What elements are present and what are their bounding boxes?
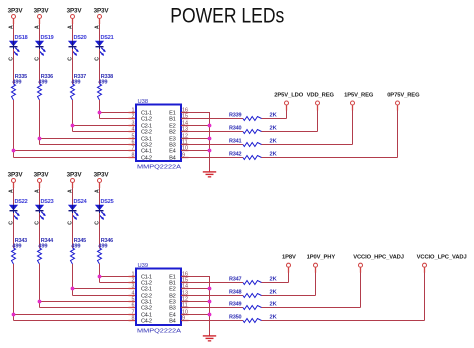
svg-text:3P3V: 3P3V xyxy=(8,172,24,179)
svg-text:2K: 2K xyxy=(270,290,278,296)
svg-text:C4-2: C4-2 xyxy=(141,319,152,325)
svg-text:DS21: DS21 xyxy=(101,35,114,41)
svg-text:DS18: DS18 xyxy=(15,35,28,41)
svg-text:2K: 2K xyxy=(270,126,278,132)
svg-text:C: C xyxy=(67,221,73,225)
svg-text:2K: 2K xyxy=(270,139,278,145)
svg-text:2P5V_LDO: 2P5V_LDO xyxy=(274,92,303,98)
svg-text:VCCIO_LPC_VADJ: VCCIO_LPC_VADJ xyxy=(417,255,467,261)
svg-text:DS25: DS25 xyxy=(101,199,114,205)
svg-text:VDD_REG: VDD_REG xyxy=(307,92,335,98)
svg-text:C2-1: C2-1 xyxy=(141,287,152,293)
svg-text:DS19: DS19 xyxy=(41,35,54,41)
svg-text:3P3V: 3P3V xyxy=(94,8,110,15)
svg-text:C3-2: C3-2 xyxy=(141,306,152,312)
svg-text:E2: E2 xyxy=(169,287,175,293)
svg-text:A: A xyxy=(8,25,14,29)
svg-text:C: C xyxy=(34,221,40,225)
svg-text:3P3V: 3P3V xyxy=(34,8,50,15)
svg-text:3P3V: 3P3V xyxy=(94,172,110,179)
svg-text:C4-1: C4-1 xyxy=(141,149,152,155)
svg-text:R340: R340 xyxy=(229,126,241,132)
svg-text:R348: R348 xyxy=(229,290,241,296)
svg-text:VCCIO_HPC_VADJ: VCCIO_HPC_VADJ xyxy=(353,255,404,261)
svg-text:A: A xyxy=(34,189,40,193)
svg-text:3P3V: 3P3V xyxy=(67,172,83,179)
svg-text:1P0V_PHY: 1P0V_PHY xyxy=(307,255,336,261)
svg-text:R339: R339 xyxy=(229,113,241,119)
svg-text:DS20: DS20 xyxy=(74,35,87,41)
svg-text:C2-2: C2-2 xyxy=(141,130,152,136)
svg-text:0P75V_REG: 0P75V_REG xyxy=(387,92,420,98)
svg-text:C: C xyxy=(8,57,14,61)
svg-text:B2: B2 xyxy=(169,130,175,136)
svg-text:C1-2: C1-2 xyxy=(141,117,152,123)
svg-text:R347: R347 xyxy=(229,277,241,283)
svg-text:C: C xyxy=(34,57,40,61)
svg-text:E4: E4 xyxy=(169,149,175,155)
svg-text:R341: R341 xyxy=(229,139,241,145)
svg-text:DS22: DS22 xyxy=(15,199,28,205)
svg-text:B4: B4 xyxy=(169,319,175,325)
svg-text:3P3V: 3P3V xyxy=(8,8,24,15)
svg-text:POWER LEDs: POWER LEDs xyxy=(170,2,284,27)
svg-text:2K: 2K xyxy=(270,152,278,158)
svg-text:C: C xyxy=(8,221,14,225)
svg-text:3P3V: 3P3V xyxy=(34,172,50,179)
svg-text:2K: 2K xyxy=(270,315,278,321)
svg-text:A: A xyxy=(67,189,73,193)
svg-text:A: A xyxy=(8,189,14,193)
svg-text:MMPQ2222A: MMPQ2222A xyxy=(137,328,181,334)
svg-text:C4-2: C4-2 xyxy=(141,156,152,162)
svg-text:DS23: DS23 xyxy=(41,199,54,205)
svg-text:R342: R342 xyxy=(229,152,241,158)
svg-text:A: A xyxy=(34,25,40,29)
svg-text:A: A xyxy=(67,25,73,29)
svg-text:A: A xyxy=(94,25,100,29)
svg-text:B1: B1 xyxy=(169,117,175,123)
svg-text:R350: R350 xyxy=(229,315,241,321)
svg-text:C: C xyxy=(94,221,100,225)
svg-text:1P8V: 1P8V xyxy=(282,255,296,261)
svg-text:2K: 2K xyxy=(270,302,278,308)
svg-text:A: A xyxy=(94,189,100,193)
svg-text:C: C xyxy=(67,57,73,61)
svg-text:MMPQ2222A: MMPQ2222A xyxy=(137,164,181,170)
svg-text:B3: B3 xyxy=(169,306,175,312)
svg-text:DS24: DS24 xyxy=(74,199,88,205)
svg-text:1P5V_REG: 1P5V_REG xyxy=(344,92,374,98)
svg-text:B4: B4 xyxy=(169,156,175,162)
svg-text:R349: R349 xyxy=(229,302,241,308)
svg-text:3P3V: 3P3V xyxy=(67,8,83,15)
svg-text:2K: 2K xyxy=(270,277,278,283)
svg-text:C: C xyxy=(94,57,100,61)
svg-text:2K: 2K xyxy=(270,113,278,119)
